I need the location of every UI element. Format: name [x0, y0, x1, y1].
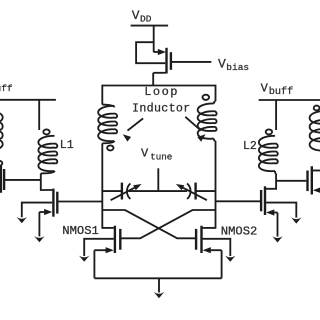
- net VDD label: [132, 8, 152, 25]
- ground M5 bulk: [291, 217, 301, 223]
- polarity dot of L2: [266, 129, 272, 134]
- arrow to right loop coil: [185, 117, 205, 142]
- net V_buff left label (cut off): [0, 80, 13, 94]
- transistor M3 buffer left: [39, 189, 57, 217]
- wire tail rail: [94, 277, 221, 279]
- wire L2 bottom node: [266, 173, 276, 188]
- svg-text:L1: L1: [60, 139, 74, 152]
- svg-text:V: V: [261, 81, 269, 95]
- label Loop Inductor: [132, 85, 191, 115]
- wire NMOS1 bulk: [84, 239, 114, 256]
- svg-text:V: V: [141, 146, 149, 160]
- wire tank left rail lower: [101, 143, 103, 228]
- inductor right-edge (cut off): [310, 111, 320, 150]
- ground NMOS1 bulk: [79, 256, 89, 262]
- svg-text:Loop: Loop: [144, 85, 179, 99]
- svg-text:tune: tune: [150, 152, 172, 163]
- polarity dot of L1: [43, 129, 49, 134]
- wire M4 gate: [276, 180, 306, 182]
- ground M5 source: [272, 236, 282, 242]
- polarity dot of left loop coil: [107, 145, 113, 150]
- ground main tail: [154, 292, 164, 298]
- transistor M5 buffer right: [261, 186, 277, 215]
- wire tank-left to buffer gate: [58, 201, 102, 203]
- wire V_buff left rail: [0, 99, 56, 101]
- wire NMOS1 source: [93, 250, 95, 278]
- svg-text:buff: buff: [0, 83, 13, 94]
- wire rail to L1: [38, 100, 40, 130]
- polarity dot right-edge coil: [314, 106, 320, 111]
- svg-text:bias: bias: [226, 62, 249, 73]
- net V_bias label: [218, 57, 249, 73]
- svg-text:L2: L2: [243, 140, 257, 153]
- wire NMOS2 bulk: [203, 239, 231, 256]
- inductor loop-left coil: [98, 105, 117, 144]
- wire M3 bulk: [22, 203, 53, 218]
- wire tank-right to buffer gate: [216, 200, 261, 202]
- wire M5 bulk: [266, 203, 296, 218]
- wire tank right rail lower: [215, 141, 217, 229]
- wire bulk tie loop of bias PMOS: [136, 42, 165, 63]
- svg-text:buff: buff: [269, 86, 293, 98]
- wire tank top rail: [102, 85, 215, 87]
- ground M3 source: [34, 236, 44, 242]
- wire NMOS2 source: [221, 250, 223, 278]
- pmos bias transistor U1: [153, 48, 171, 74]
- inductor left-edge (cut off): [0, 111, 3, 150]
- wire varactor rail: [102, 190, 215, 192]
- polarity dot of right loop coil: [203, 95, 210, 100]
- net V_buff right label: [261, 81, 294, 98]
- wire cross-couple right (NMOS2 drain to NMOS1 gate): [122, 210, 216, 238]
- net V_tune label: [141, 146, 172, 162]
- wire tail to ground: [158, 278, 160, 292]
- wire M3 source: [38, 212, 40, 236]
- wire VDD to PMOS source: [153, 26, 155, 53]
- wire M1 gate: [5, 179, 41, 181]
- wire V_bias: [172, 61, 211, 63]
- transistor NMOS2: [196, 226, 222, 254]
- wire VDD rail: [131, 25, 169, 27]
- arrow to left loop coil: [123, 118, 143, 141]
- svg-text:V: V: [218, 57, 226, 72]
- transistor NMOS1: [94, 226, 120, 254]
- wire tank left rail upper: [101, 85, 103, 105]
- svg-text:V: V: [132, 8, 140, 23]
- wire cross-couple left (NMOS1 drain to NMOS2 gate): [102, 210, 196, 238]
- varactor C1: [111, 183, 142, 201]
- ground M3 bulk: [17, 217, 27, 223]
- polarity dot left-edge coil: [0, 161, 2, 166]
- wire tank right rail upper: [215, 85, 217, 102]
- varactor C2: [176, 183, 207, 201]
- svg-text:Inductor: Inductor: [132, 101, 191, 115]
- inductor L2: [259, 136, 278, 174]
- inductor loop-right coil: [198, 101, 217, 141]
- wire V_buff right rail: [259, 99, 320, 101]
- wire PMOS drain to tank rail: [152, 73, 154, 86]
- transistor M4 output stage right: [308, 166, 320, 194]
- wire rail to L2: [275, 100, 277, 130]
- wire L1 bottom node: [41, 173, 53, 190]
- svg-text:DD: DD: [140, 14, 152, 25]
- transistor M1 output stage (cut off): [1, 166, 4, 193]
- svg-text:NMOS1: NMOS1: [62, 224, 99, 238]
- wire V_tune: [157, 168, 159, 191]
- ground NMOS2 bulk: [225, 256, 235, 262]
- wire M5 source: [277, 213, 279, 237]
- inductor L1: [38, 136, 57, 174]
- svg-text:NMOS2: NMOS2: [221, 225, 258, 239]
